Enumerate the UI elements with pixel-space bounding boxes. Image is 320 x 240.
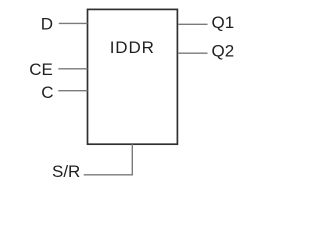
wire C input pin [58, 90, 87, 92]
svg-text:IDDR: IDDR [110, 38, 155, 57]
op-amp U1 IDDR primitive block body [88, 9, 178, 144]
wire Q1 output pin [178, 23, 207, 25]
svg-text:Q2: Q2 [212, 42, 235, 61]
svg-text:C: C [41, 83, 53, 102]
svg-text:S/R: S/R [52, 162, 80, 181]
wire D input pin [59, 22, 88, 24]
wire CE input pin [58, 68, 87, 70]
svg-text:Q1: Q1 [212, 13, 235, 32]
svg-text:CE: CE [29, 60, 53, 79]
wire S/R vertical segment to block bottom [131, 144, 133, 175]
svg-text:D: D [41, 14, 53, 33]
wire S/R horizontal segment [84, 174, 133, 176]
wire Q2 output pin [178, 52, 207, 54]
